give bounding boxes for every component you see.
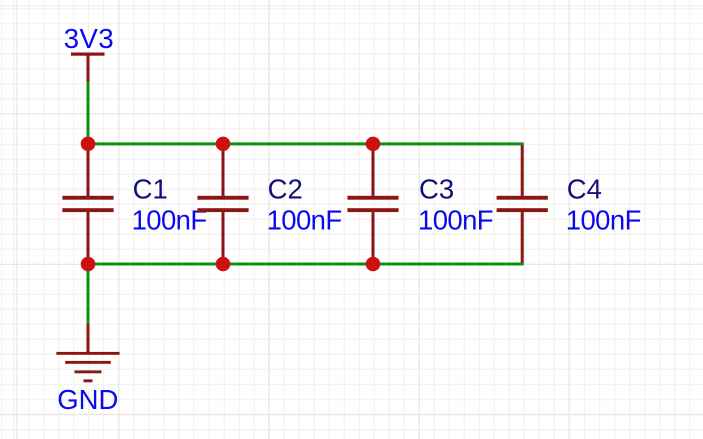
- svg-text:100nF: 100nF: [566, 204, 641, 235]
- power flag 3V3: [71, 53, 105, 82]
- capacitor C4: [497, 144, 548, 264]
- wire: gnd vertical: [87, 264, 90, 323]
- capacitor C2: [197, 144, 248, 264]
- junction (C2 top): [216, 137, 231, 152]
- svg-text:C2: C2: [268, 174, 303, 205]
- svg-text:GND: GND: [57, 384, 118, 415]
- capacitor C1: [62, 144, 113, 264]
- svg-text:100nF: 100nF: [418, 204, 493, 235]
- svg-text:100nF: 100nF: [132, 204, 207, 235]
- svg-text:100nF: 100nF: [267, 204, 342, 235]
- ground symbol: [56, 323, 119, 382]
- junction (C3 top): [366, 137, 381, 152]
- junction (C2 bottom): [216, 257, 231, 272]
- wire: 3V3 vertical: [87, 82, 90, 146]
- svg-text:C1: C1: [133, 174, 168, 205]
- capacitor C3: [347, 144, 398, 264]
- svg-text:3V3: 3V3: [64, 23, 114, 54]
- svg-text:C4: C4: [567, 174, 602, 205]
- wire: bottom bus: [87, 263, 524, 266]
- junction (C3 bottom): [366, 257, 381, 272]
- junction (C1 top): [81, 137, 96, 152]
- wire: top bus: [87, 142, 524, 145]
- svg-text:C3: C3: [419, 174, 454, 205]
- junction (C1 bottom): [81, 257, 96, 272]
